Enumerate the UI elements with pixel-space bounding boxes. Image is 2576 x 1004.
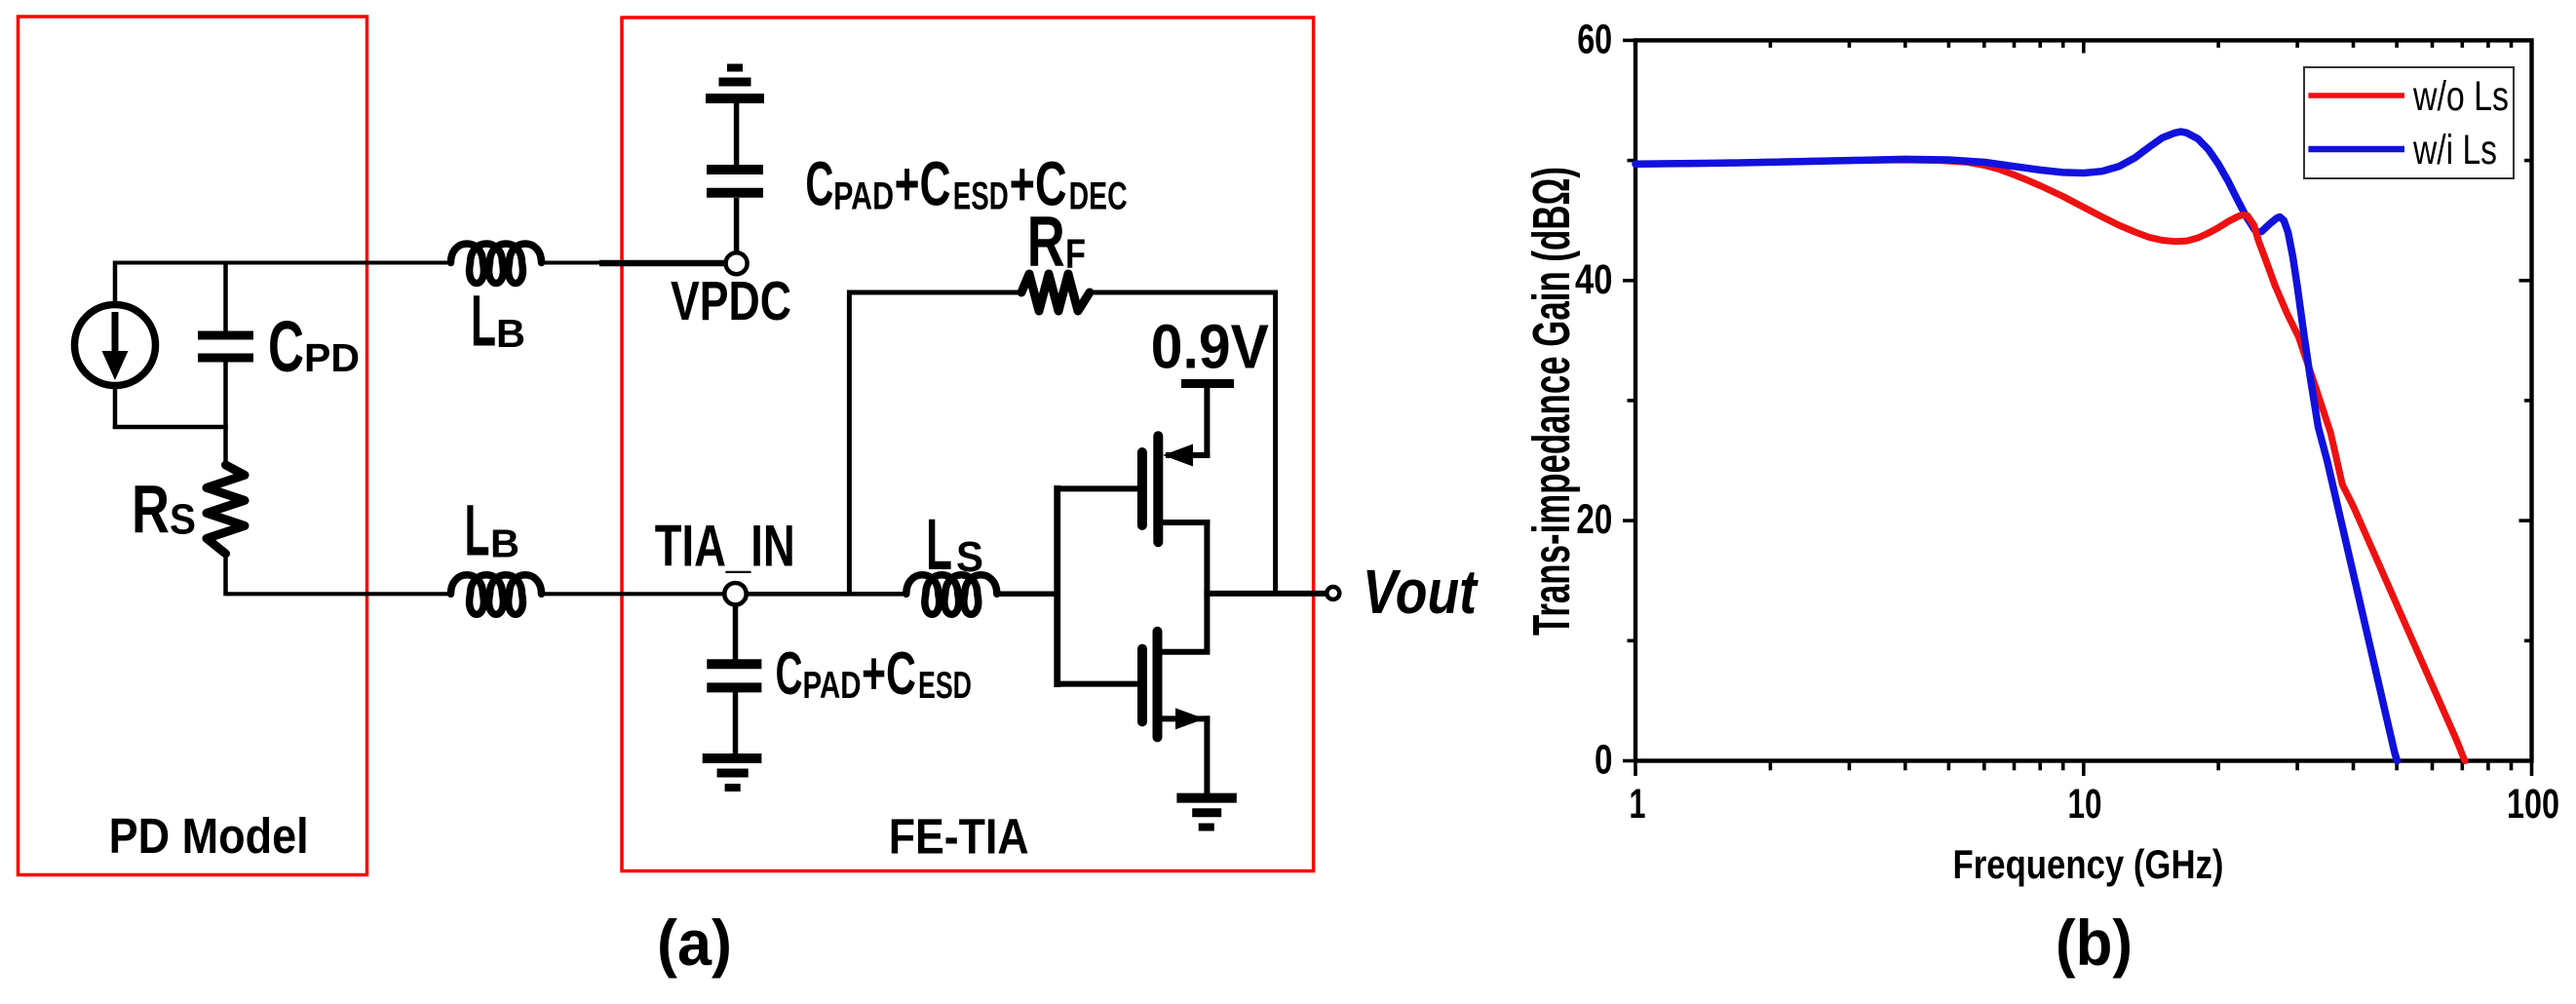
y tick labels [1575,17,1613,784]
wire PMOS source stub [1166,452,1210,458]
curve w/o Ls (red) [1635,160,2465,761]
inductor LS [906,504,997,614]
wire gate vertical [1054,485,1060,687]
svg-text:L: L [471,281,496,362]
wire bottom rail mid [542,592,726,596]
svg-text:TIA_IN: TIA_IN [655,513,795,578]
capacitor CPAD+CESD+CDEC [707,149,1128,219]
svg-text:(b): (b) [2056,907,2133,979]
svg-text:(a): (a) [657,907,732,979]
svg-text:0: 0 [1595,737,1613,784]
svg-text:w/i Ls: w/i Ls [2412,127,2497,174]
node VPDC [671,252,791,332]
svg-text:Trans-impedance Gain (dBΩ): Trans-impedance Gain (dBΩ) [1522,167,1581,636]
PD Model box [19,17,367,875]
wire top rail mid [542,261,603,265]
wire NMOS drain vertical [1204,591,1210,652]
wire RS bottom [223,552,228,596]
svg-text:FE-TIA: FE-TIA [889,809,1029,865]
svg-text:C: C [805,149,833,219]
wire output [1207,591,1326,597]
legend [2304,67,2514,178]
x ticks top (in) [1770,40,2511,53]
svg-text:L: L [465,490,490,571]
svg-text:100: 100 [2507,781,2559,828]
svg-text:ESD: ESD [918,665,972,707]
node TIA_IN [655,513,795,604]
svg-text:10: 10 [2068,781,2102,828]
svg-text:DEC: DEC [1069,175,1128,218]
FE-TIA box [622,18,1314,871]
svg-text:R: R [132,471,170,547]
curve w/o Ls red bump overlay [2209,215,2276,287]
wire top rail right to VPDC [599,260,726,267]
y major ticks left (out) [1623,40,1635,760]
wire bottom cap to ground [733,692,739,756]
svg-text:PD Model: PD Model [109,808,309,864]
svg-text:+C: +C [895,149,951,219]
resistor RS [132,465,245,554]
wire TIA_IN node down [733,604,739,660]
wire NMOS source stub [1162,715,1211,721]
ground under NMOS [1176,798,1236,828]
svg-text:R: R [1027,203,1065,282]
svg-text:PAD: PAD [803,665,862,707]
wire 0.9V down to PMOS source [1204,386,1210,458]
wire TIA_IN to LS [746,592,906,597]
wire current source bottom [113,387,118,429]
wire CPD top [223,263,228,336]
x ticks bottom (out) [1635,761,2532,777]
wire feedback top left [847,290,1021,295]
svg-text:60: 60 [1577,17,1612,63]
svg-text:B: B [490,521,519,565]
wire NMOS source vertical [1204,715,1210,796]
wire feedback left vertical [847,290,852,595]
wire current source top [113,261,118,302]
svg-text:C: C [268,306,304,387]
wire NMOS drain stub [1162,649,1211,655]
plot frame [1635,40,2532,760]
capacitor CPD [198,306,360,387]
power rail bars [706,68,764,99]
svg-text:w/o Ls: w/o Ls [2412,73,2509,120]
wire CPD bottom [223,359,228,429]
svg-text:+C: +C [862,640,916,708]
wire PMOS drain vertical [1204,520,1210,597]
svg-text:Vout: Vout [1363,557,1479,627]
wire RS top [223,427,228,467]
svg-text:F: F [1065,231,1086,278]
transistor M2 NMOS [1142,632,1205,738]
ground under CPAD+CESD [703,758,762,788]
wire PMOS gate stub [1057,485,1137,491]
wire loop bottom [113,425,228,430]
svg-text:PD: PD [304,335,360,380]
resistor RF [1021,203,1090,312]
capacitor CPAD+CESD [707,640,972,708]
svg-text:VPDC: VPDC [671,270,791,332]
wire VPDC node up [734,198,740,252]
svg-text:PAD: PAD [833,175,894,218]
svg-text:Frequency (GHz): Frequency (GHz) [1953,841,2224,887]
current source IPD [75,305,156,386]
wire PMOS drain stub [1163,520,1210,525]
inductor LB top [451,244,542,362]
wire top cap to power bars [734,101,740,165]
svg-text:B: B [496,311,525,356]
wire feedback top right [1090,290,1278,295]
wire bottom rail left [226,592,451,596]
svg-text:L: L [926,504,952,585]
x tick labels [1630,781,2560,828]
wire top rail left [113,261,452,265]
svg-text:S: S [170,495,196,543]
svg-text:C: C [776,640,803,708]
CHART [1522,17,2559,888]
wire NMOS gate stub [1057,681,1139,687]
svg-text:20: 20 [1576,496,1612,543]
node Vout [1326,557,1479,627]
wire feedback right vertical [1273,290,1278,595]
svg-text:0.9V: 0.9V [1151,312,1269,382]
transistor M1 PMOS [1142,436,1193,542]
svg-text:ESD: ESD [953,175,1009,218]
wire LS to gate [997,592,1060,598]
svg-text:S: S [956,533,983,581]
supply 0.9V [1151,312,1269,384]
inductor LB bottom [451,490,542,615]
curve w/i Ls (blue) [1635,132,2398,761]
svg-text:1: 1 [1630,781,1646,828]
y ticks right (in) [2519,40,2532,760]
